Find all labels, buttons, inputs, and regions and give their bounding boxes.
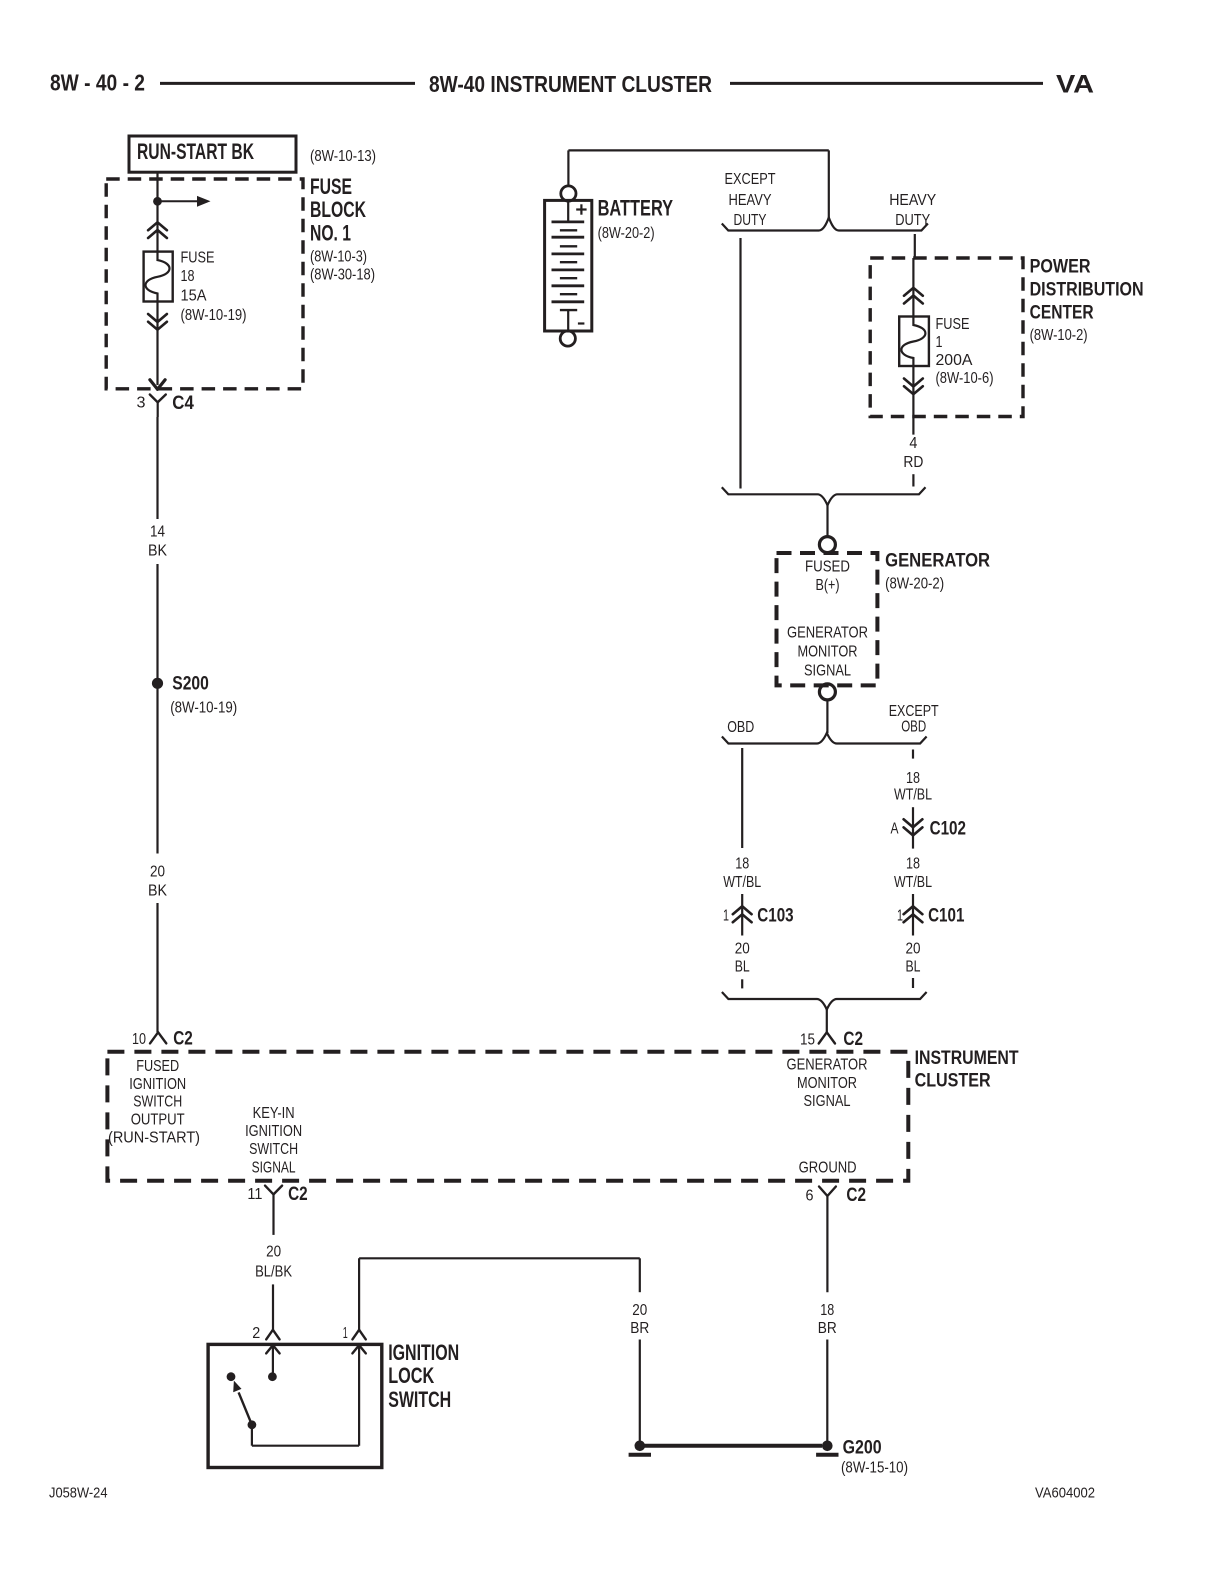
svg-text:6: 6 — [806, 1188, 814, 1205]
header VA — [1056, 71, 1094, 99]
svg-text:KEY-IN: KEY-IN — [253, 1105, 295, 1122]
power distribution center dashed outline — [870, 258, 1023, 417]
fuse 1 200A — [899, 317, 929, 367]
svg-text:GROUND: GROUND — [799, 1160, 857, 1177]
svg-text:IGNITION: IGNITION — [245, 1123, 302, 1140]
svg-text:C2: C2 — [843, 1029, 863, 1050]
switch internal wire pin1 to blade pivot — [252, 1345, 359, 1446]
wire 20 BL stub (except obd) — [912, 978, 914, 988]
label INSTRUMENT CLUSTER — [915, 1048, 1019, 1092]
svg-text:1: 1 — [897, 907, 903, 924]
header rule left — [160, 82, 415, 85]
svg-text:S200: S200 — [172, 674, 209, 695]
connector chevrons out of fuse 1 — [904, 379, 923, 395]
svg-text:G200: G200 — [843, 1437, 882, 1458]
pin number 15 — [800, 1031, 815, 1048]
svg-text:SIGNAL: SIGNAL — [252, 1159, 296, 1176]
connector label C102 — [930, 818, 966, 839]
svg-text:LOCK: LOCK — [388, 1363, 434, 1388]
ground terminal left — [629, 1441, 651, 1455]
svg-text:MONITOR: MONITOR — [797, 1075, 857, 1092]
svg-text:VA: VA — [1056, 71, 1094, 99]
svg-text:RUN-START BK: RUN-START BK — [137, 139, 254, 164]
ignition lock switch outline — [208, 1344, 382, 1467]
option label OBD — [727, 719, 754, 736]
wire 14 BK lower — [156, 564, 158, 854]
svg-text:SWITCH: SWITCH — [249, 1141, 298, 1158]
header rule right — [730, 82, 1043, 85]
svg-text:C103: C103 — [757, 906, 793, 927]
connector label C2 (pin6) — [846, 1185, 866, 1206]
svg-text:IGNITION: IGNITION — [388, 1340, 459, 1365]
ground tie strap — [644, 1444, 822, 1448]
svg-text:18: 18 — [820, 1302, 834, 1319]
svg-text:FUSED: FUSED — [136, 1058, 179, 1075]
battery body — [545, 200, 592, 331]
svg-text:FUSE: FUSE — [310, 174, 352, 199]
wire fuse 1 to 4 RD — [912, 366, 914, 435]
pin function key-in ignition switch signal — [245, 1105, 302, 1176]
pin 2 contact dot — [268, 1372, 277, 1381]
svg-text:BL/BK: BL/BK — [255, 1264, 292, 1281]
pin number 2 — [252, 1325, 260, 1342]
svg-text:(8W-20-2): (8W-20-2) — [598, 225, 655, 242]
footer code J058W-24 — [49, 1484, 108, 1501]
connector pin 2 male half — [266, 1345, 279, 1372]
svg-text:POWER: POWER — [1030, 257, 1091, 278]
connector C2 pin 15 half — [819, 1032, 835, 1043]
wire 18 BR lower — [826, 1340, 828, 1442]
svg-text:CLUSTER: CLUSTER — [915, 1071, 991, 1092]
wire into fuse 1 — [912, 258, 914, 317]
svg-text:OUTPUT: OUTPUT — [131, 1111, 185, 1128]
svg-text:(8W-15-10): (8W-15-10) — [841, 1460, 908, 1477]
svg-text:J058W-24: J058W-24 — [49, 1484, 108, 1501]
label GENERATOR — [885, 551, 990, 593]
fuse 1 value label — [936, 316, 994, 387]
svg-text:BATTERY: BATTERY — [598, 196, 674, 221]
svg-text:C4: C4 — [172, 393, 194, 414]
label POWER DISTRIBUTION CENTER — [1030, 257, 1144, 345]
generator B+ terminal ring — [819, 537, 835, 553]
splice label S200 — [170, 674, 237, 717]
svg-text:C101: C101 — [928, 905, 965, 926]
svg-text:HEAVY: HEAVY — [729, 192, 772, 209]
svg-text:BR: BR — [818, 1320, 837, 1337]
pin number 3 — [137, 395, 146, 412]
svg-text:OBD: OBD — [727, 719, 754, 736]
wire 20 BR lower — [639, 1340, 641, 1442]
svg-text:BK: BK — [148, 543, 167, 560]
svg-text:20: 20 — [632, 1302, 647, 1319]
wire label 18 BR — [818, 1302, 837, 1337]
svg-text:2: 2 — [252, 1325, 260, 1342]
reference (8W-10-13) — [310, 148, 376, 165]
svg-text:MONITOR: MONITOR — [798, 643, 858, 660]
svg-text:WT/BL: WT/BL — [723, 874, 761, 891]
switch blade pivot dot — [248, 1420, 257, 1429]
pin number 6 — [806, 1188, 814, 1205]
option label EXCEPT OBD — [889, 703, 939, 735]
label FUSE BLOCK NO. 1 — [310, 174, 375, 284]
svg-text:SWITCH: SWITCH — [388, 1387, 451, 1412]
connector chevrons into fuse 1 — [904, 288, 923, 304]
wire label 18 WT/BL upper (except obd) — [894, 770, 932, 804]
svg-text:20: 20 — [150, 864, 165, 881]
connector C103 chevrons — [733, 906, 752, 922]
wire label 20 BL (except obd) — [906, 941, 921, 976]
svg-text:8W - 40 - 2: 8W - 40 - 2 — [50, 70, 145, 96]
svg-text:DUTY: DUTY — [734, 212, 767, 229]
connector chevrons out of fuse — [148, 314, 167, 330]
battery positive terminal ring — [561, 186, 576, 201]
svg-text:BLOCK: BLOCK — [310, 197, 366, 222]
branch arrow to other circuits — [158, 196, 211, 207]
connector C101 chevrons — [904, 906, 923, 922]
svg-text:FUSED: FUSED — [805, 559, 850, 576]
wire obd branch 18 WT/BL — [741, 748, 743, 848]
wire into C103 — [741, 894, 743, 936]
switch fixed contact dot — [227, 1372, 236, 1381]
svg-text:HEAVY: HEAVY — [889, 192, 936, 209]
wire 20 BL/BK lower — [272, 1284, 274, 1329]
connector label C2 (pin15) — [843, 1029, 863, 1050]
svg-text:WT/BL: WT/BL — [894, 786, 932, 803]
wire battery B+ feed — [568, 150, 828, 218]
pin number 11 — [247, 1186, 262, 1203]
wire into C101 — [912, 894, 914, 936]
male pin arrow at C4 — [150, 380, 165, 389]
svg-text:20: 20 — [735, 941, 750, 958]
options merge bracket — [722, 487, 926, 505]
wire label 20 BL (obd) — [735, 941, 750, 976]
svg-text:C2: C2 — [173, 1028, 193, 1049]
ground G200 — [816, 1441, 838, 1455]
obd options split bracket — [722, 733, 927, 744]
pin function generator monitor signal (generator) — [787, 625, 868, 680]
svg-text:200A: 200A — [936, 352, 973, 369]
wire except obd stub — [912, 750, 914, 759]
wire label 18 WT/BL (obd) — [723, 855, 761, 891]
connector C2 pin 11 half — [265, 1186, 282, 1235]
wire label 20 BR — [630, 1302, 649, 1337]
svg-text:10: 10 — [132, 1031, 146, 1048]
instrument cluster dashed outline — [107, 1052, 908, 1181]
svg-text:C102: C102 — [930, 818, 966, 839]
svg-text:WT/BL: WT/BL — [894, 874, 932, 891]
wire fuse to connector C4 — [156, 302, 158, 386]
wire 4 RD stub — [912, 474, 914, 486]
fuse 18 value label — [181, 250, 247, 324]
obd options merge bracket — [722, 992, 927, 1010]
svg-text:8W-40 INSTRUMENT CLUSTER: 8W-40 INSTRUMENT CLUSTER — [429, 71, 712, 97]
connector C4 pin 3 female — [150, 395, 166, 418]
svg-text:RD: RD — [903, 454, 923, 471]
svg-text:SIGNAL: SIGNAL — [804, 663, 851, 680]
svg-text:FUSE: FUSE — [181, 250, 215, 267]
connector C2 pin 10 half — [150, 1032, 166, 1043]
svg-text:(8W-10-13): (8W-10-13) — [310, 148, 376, 165]
wire 20 BL stub (obd) — [741, 979, 743, 988]
svg-text:GENERATOR: GENERATOR — [787, 625, 868, 642]
pin function ground — [799, 1160, 857, 1177]
svg-text:SWITCH: SWITCH — [133, 1094, 182, 1111]
svg-text:18: 18 — [735, 855, 749, 872]
wire 14 BK upper — [156, 417, 158, 519]
label IGNITION LOCK SWITCH — [388, 1340, 459, 1412]
svg-text:20: 20 — [266, 1244, 281, 1261]
svg-text:(8W-20-2): (8W-20-2) — [885, 576, 944, 593]
wire label 14 BK — [148, 524, 167, 560]
svg-text:(8W-10-19): (8W-10-19) — [170, 700, 237, 717]
connector label C101 — [928, 905, 965, 926]
svg-text:4: 4 — [909, 435, 917, 452]
svg-text:14: 14 — [150, 524, 165, 541]
ground label G200 — [841, 1437, 908, 1476]
junction dot — [153, 197, 162, 206]
svg-text:11: 11 — [247, 1186, 262, 1203]
svg-text:C2: C2 — [846, 1185, 866, 1206]
svg-text:EXCEPT: EXCEPT — [725, 171, 776, 188]
svg-text:(8W-30-18): (8W-30-18) — [310, 267, 375, 284]
option label HEAVY DUTY — [889, 192, 936, 229]
wire heavy duty branch — [914, 234, 916, 258]
wire through C102 — [912, 807, 914, 848]
svg-text:18: 18 — [906, 770, 920, 787]
option label EXCEPT HEAVY DUTY — [725, 171, 776, 229]
svg-text:INSTRUMENT: INSTRUMENT — [915, 1048, 1019, 1069]
svg-text:NO. 1: NO. 1 — [310, 221, 351, 246]
svg-text:(8W-10-19): (8W-10-19) — [181, 307, 247, 324]
pin letter A (C102) — [891, 820, 899, 837]
svg-text:18: 18 — [181, 268, 195, 285]
svg-text:20: 20 — [906, 941, 921, 958]
svg-text:(8W-10-6): (8W-10-6) — [936, 370, 994, 387]
label BATTERY — [598, 196, 674, 242]
connector chevrons into fuse — [148, 222, 167, 238]
svg-text:18: 18 — [906, 855, 920, 872]
wire from RUN-START BK into fuse block — [156, 172, 158, 251]
battery negative terminal ring — [560, 331, 575, 346]
connector label C2 (pin11) — [288, 1184, 308, 1205]
header title 8W-40 INSTRUMENT CLUSTER — [429, 71, 712, 97]
wire label 20 BL/BK — [255, 1244, 292, 1281]
svg-text:SIGNAL: SIGNAL — [804, 1093, 851, 1110]
pin number 1 (C103) — [723, 907, 729, 924]
connector pin 2 female half — [266, 1330, 279, 1340]
svg-text:C2: C2 — [288, 1184, 308, 1205]
svg-text:GENERATOR: GENERATOR — [885, 551, 990, 572]
wire to generator B+ — [826, 505, 828, 536]
svg-text:BL: BL — [906, 959, 921, 976]
svg-text:BR: BR — [630, 1320, 649, 1337]
footer code VA604002 — [1035, 1484, 1095, 1501]
svg-text:(RUN-START): (RUN-START) — [108, 1130, 200, 1147]
fuse 18 15A — [144, 252, 173, 302]
wire pin1 up and across — [359, 1258, 640, 1330]
wire 20 BK lower — [156, 903, 158, 1032]
fuse block no.1 dashed outline — [106, 179, 303, 389]
svg-text:1: 1 — [343, 1325, 348, 1342]
generator monitor terminal ring — [819, 684, 835, 700]
wire label 18 WT/BL lower (except obd) — [894, 855, 932, 891]
connector label C103 — [757, 906, 793, 927]
svg-text:GENERATOR: GENERATOR — [787, 1057, 868, 1074]
connector pin 1 male half — [352, 1345, 365, 1353]
pin function fused B(+) — [805, 559, 850, 595]
svg-text:A: A — [891, 820, 899, 837]
svg-text:IGNITION: IGNITION — [129, 1076, 186, 1093]
wire label 20 BK — [148, 864, 167, 900]
connector C2 pin 6 half — [819, 1187, 836, 1293]
svg-text:15: 15 — [800, 1031, 815, 1048]
svg-text:BK: BK — [148, 883, 167, 900]
wire to instrument cluster pin 15 — [826, 1010, 828, 1033]
pin number 1 (C101) — [897, 907, 903, 924]
connector label C4 — [172, 393, 194, 414]
svg-text:1: 1 — [936, 334, 943, 351]
wire generator monitor out — [826, 700, 828, 733]
pin number 1 (switch) — [343, 1325, 348, 1342]
generator dashed outline — [777, 553, 878, 685]
svg-text:FUSE: FUSE — [936, 316, 970, 333]
svg-text:1: 1 — [723, 907, 729, 924]
svg-text:(8W-10-3): (8W-10-3) — [310, 249, 367, 266]
splice S200 — [152, 678, 163, 689]
pin function generator monitor signal — [787, 1057, 868, 1111]
svg-text:CENTER: CENTER — [1030, 303, 1094, 324]
connector C102 chevrons — [904, 819, 923, 835]
connector pin 1 female half — [352, 1330, 365, 1340]
wire label 4 RD — [903, 435, 923, 471]
svg-text:BL: BL — [735, 959, 750, 976]
svg-text:OBD: OBD — [901, 718, 926, 735]
pin number 10 — [132, 1031, 146, 1048]
switch blade with arrow — [233, 1381, 252, 1425]
node RUN-START BK feed box — [129, 136, 296, 172]
connector label C2 (pin10) — [173, 1028, 193, 1049]
wire except heavy duty branch — [739, 238, 741, 489]
svg-text:(8W-10-2): (8W-10-2) — [1030, 327, 1088, 344]
svg-text:3: 3 — [137, 395, 146, 412]
pin function fused ignition switch output — [108, 1058, 200, 1147]
svg-text:VA604002: VA604002 — [1035, 1484, 1095, 1501]
svg-text:B(+): B(+) — [816, 577, 840, 594]
header page number 8W - 40 - 2 — [50, 70, 145, 96]
options split bracket — [722, 218, 928, 231]
svg-text:DISTRIBUTION: DISTRIBUTION — [1030, 280, 1144, 301]
svg-text:15A: 15A — [181, 288, 207, 305]
